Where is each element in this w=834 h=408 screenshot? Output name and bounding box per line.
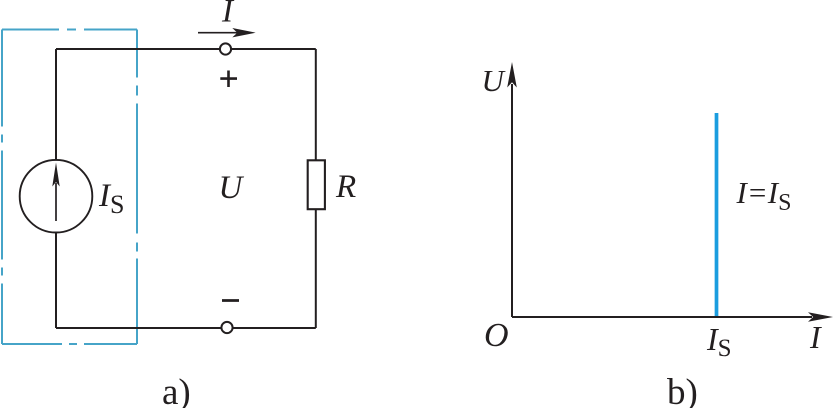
minus polarity mark: [222, 299, 239, 302]
svg-text:I=IS: I=IS: [736, 175, 792, 216]
wire left side below source: [55, 232, 57, 328]
dash-dot source boundary box, top edge: [2, 29, 137, 31]
wire right side below resistor: [315, 209, 317, 328]
svg-text:R: R: [335, 169, 356, 205]
graph U axis: [511, 84, 513, 317]
wire left side above source: [55, 49, 57, 160]
svg-text:O: O: [484, 317, 509, 354]
svg-text:b): b): [667, 372, 698, 408]
current arrow I head: [232, 28, 255, 37]
svg-text:IS: IS: [706, 321, 732, 362]
current arrow I shaft: [198, 32, 248, 34]
svg-text:I: I: [809, 319, 822, 355]
svg-text:a): a): [162, 372, 191, 408]
terminal node, top: [220, 43, 231, 54]
current source arrow shaft: [55, 183, 57, 221]
wire right side down to resistor: [315, 49, 317, 160]
current source IS circle: [20, 160, 93, 233]
plus polarity mark: [220, 71, 237, 88]
graph I axis: [512, 316, 812, 318]
wire top (node between source and terminal): [56, 48, 316, 50]
svg-text:I: I: [221, 0, 235, 30]
current source arrowhead: [52, 163, 59, 187]
wire bottom: [56, 327, 316, 329]
svg-text:IS: IS: [98, 178, 124, 219]
graph I axis arrowhead: [808, 312, 833, 322]
dash-dot source boundary box, bottom edge: [2, 343, 137, 345]
svg-text:U: U: [219, 170, 245, 206]
dash-dot source boundary box, left edge: [1, 30, 3, 345]
graph characteristic line I=IS: [715, 113, 719, 316]
svg-text:U: U: [482, 63, 507, 98]
graph U axis arrowhead: [507, 62, 517, 88]
terminal node, bottom: [221, 322, 232, 333]
resistor R body: [308, 160, 325, 209]
dash-dot source boundary box, right edge: [136, 30, 138, 345]
